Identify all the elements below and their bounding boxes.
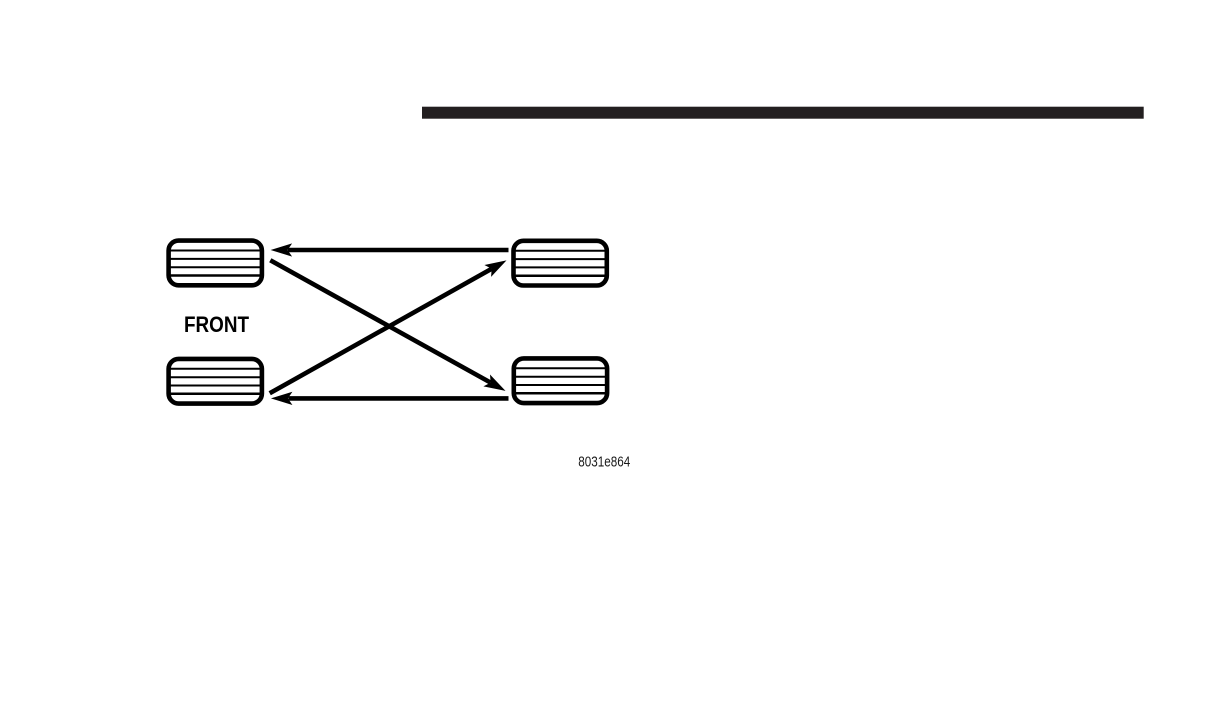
tire front-left <box>169 241 262 286</box>
tire rear-right <box>514 358 607 403</box>
tire rear-left <box>169 359 262 404</box>
svg-text:8031e864: 8031e864 <box>578 454 630 470</box>
arrow diagonal: front-left tire to rear-right tire <box>270 260 509 397</box>
tire front-right <box>514 241 607 286</box>
arrow top: front-right tire to front-left tire <box>271 243 509 256</box>
top rule bar <box>422 107 1144 119</box>
svg-text:FRONT: FRONT <box>184 312 249 337</box>
arrow bottom: rear-right tire to rear-left tire <box>271 392 509 405</box>
arrow diagonal: rear-left tire to front-right tire <box>270 254 510 393</box>
